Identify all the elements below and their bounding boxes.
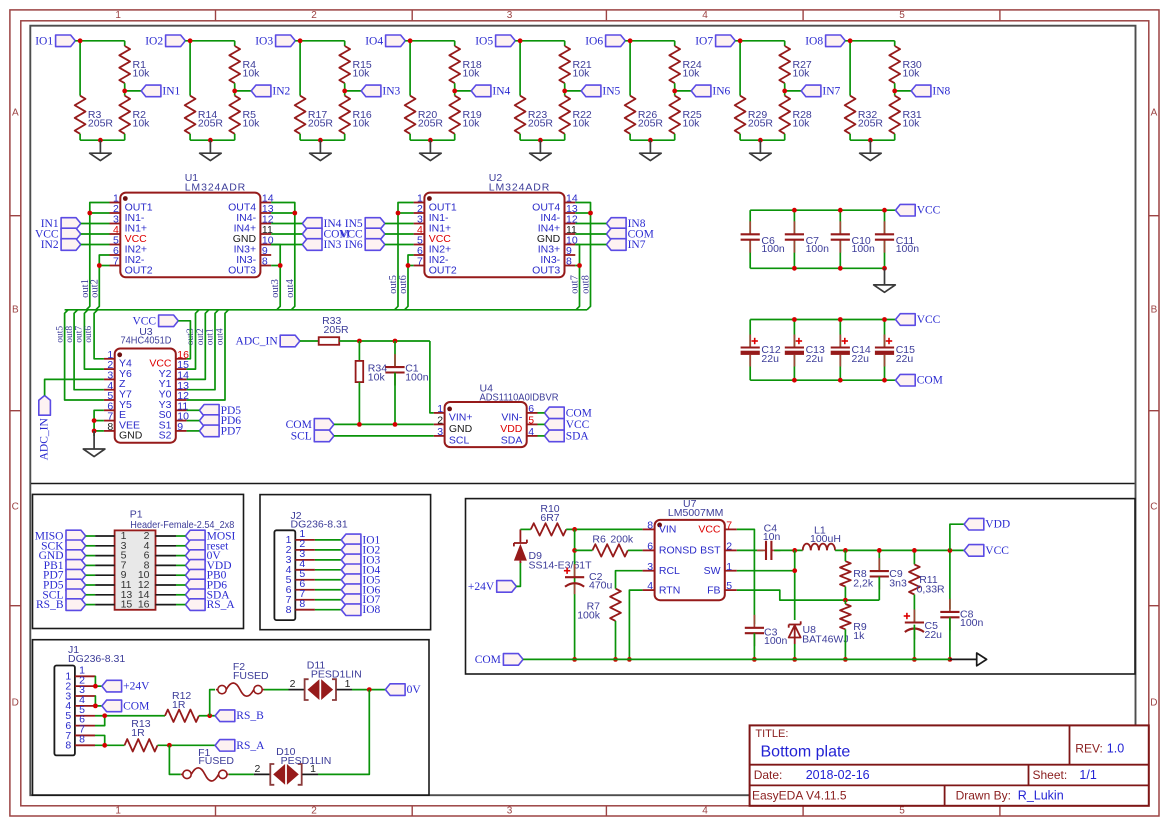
svg-text:1: 1 xyxy=(115,805,121,816)
port RS_A xyxy=(185,599,205,611)
svg-text:1: 1 xyxy=(310,763,316,775)
svg-text:COM: COM xyxy=(286,419,312,431)
P1 pin 15 xyxy=(95,604,115,606)
wire net out3 from bus to U3 pin15 Y2 xyxy=(187,310,199,369)
svg-text:10k: 10k xyxy=(903,118,921,130)
resistor R13 1R xyxy=(125,739,158,751)
svg-text:10k: 10k xyxy=(573,118,591,130)
resistor R12 1R xyxy=(165,710,199,722)
svg-text:4: 4 xyxy=(528,426,534,438)
wire channel 2 bottom xyxy=(189,134,191,140)
port IO2 xyxy=(166,35,186,47)
wire J2 pin 2 to IO2 xyxy=(315,549,341,551)
U1 pin 12 IN4+ xyxy=(260,223,271,225)
port IO4 at J2 xyxy=(341,564,361,576)
svg-text:A: A xyxy=(12,108,19,119)
port reset xyxy=(185,540,205,552)
resistor R33 205R xyxy=(300,340,319,342)
wire U7 BST to C4 xyxy=(737,549,764,551)
svg-text:6: 6 xyxy=(528,403,534,415)
resistor R14 205R xyxy=(185,96,196,134)
section box J1 xyxy=(33,640,430,796)
svg-text:+24V: +24V xyxy=(123,681,150,693)
svg-text:D: D xyxy=(1150,698,1157,709)
svg-text:200k: 200k xyxy=(610,533,634,545)
resistor R2 10k xyxy=(119,96,130,134)
U7 pin 1 SW xyxy=(725,570,737,572)
svg-text:0,33R: 0,33R xyxy=(917,584,945,596)
wire U7 RCL to R7 xyxy=(616,571,643,589)
svg-text:IO2: IO2 xyxy=(145,35,163,47)
svg-text:10k: 10k xyxy=(353,68,371,80)
node IO5 junction xyxy=(518,38,523,43)
wire VCC to U3 pin16 xyxy=(178,321,190,359)
svg-text:R_Lukin: R_Lukin xyxy=(1018,788,1064,802)
port COM power rail xyxy=(503,654,523,666)
U7 pin 5 FB xyxy=(725,589,737,591)
svg-text:B: B xyxy=(12,305,19,316)
ground channel 3 xyxy=(319,140,321,153)
port PD7 at U3 pin9 xyxy=(199,425,219,437)
svg-text:100n: 100n xyxy=(960,617,984,629)
wire net out4 from bus to U3 pin12 Y3 xyxy=(187,310,229,400)
node channel 2 ground junction xyxy=(208,138,213,143)
ground channel 8 xyxy=(869,140,871,153)
resistor R4 10k xyxy=(229,46,240,83)
ruler row ticks and letters xyxy=(10,215,21,217)
port COM bank2 xyxy=(896,374,916,386)
svg-text:COM: COM xyxy=(475,654,501,666)
port IN7 at U2 right xyxy=(606,239,626,251)
svg-text:1: 1 xyxy=(726,561,732,573)
capacitor C2 470u polarized xyxy=(574,564,576,577)
svg-text:+24V: +24V xyxy=(468,581,495,593)
wire xyxy=(271,233,302,235)
svg-text:3: 3 xyxy=(437,426,443,438)
U7 pin 6 RONSD xyxy=(643,549,655,551)
svg-text:VCC: VCC xyxy=(132,315,156,327)
wire J2 pin 1 to IO1 xyxy=(315,539,341,541)
inductor L1 100uH xyxy=(803,544,835,551)
svg-text:IO5: IO5 xyxy=(475,35,493,47)
svg-text:OUT3: OUT3 xyxy=(228,265,256,277)
wire net out4 (pin14-pin13 feedback to bus) xyxy=(271,203,295,310)
svg-text:C: C xyxy=(12,502,19,513)
wire channel 1 bottom xyxy=(79,134,81,140)
resistor R11 0.33R xyxy=(913,550,915,564)
svg-text:VCC: VCC xyxy=(985,545,1009,557)
node IN4 junction xyxy=(452,89,457,94)
svg-text:3: 3 xyxy=(647,561,653,573)
port COM at J1 xyxy=(102,700,122,712)
port IO1 xyxy=(56,35,76,47)
svg-text:FUSED: FUSED xyxy=(198,755,234,767)
fuse F1 FUSED xyxy=(181,773,183,775)
port PB0 xyxy=(185,569,205,581)
svg-text:out1: out1 xyxy=(206,328,216,345)
svg-text:C: C xyxy=(1150,502,1157,513)
wire R12 to RS_B xyxy=(199,715,215,717)
wire xyxy=(81,244,110,246)
wire net out2 from bus to U3 pin14 Y1 xyxy=(187,310,209,380)
op-amp U1 LM324ADR body xyxy=(120,193,260,278)
svg-text:RCL: RCL xyxy=(659,565,680,577)
node IN5 junction xyxy=(562,89,567,94)
port IO4 xyxy=(386,35,406,47)
wire SCL to U4 xyxy=(334,435,434,437)
wire U8 to COM rail xyxy=(794,644,796,659)
port IO8 at J2 xyxy=(341,604,361,616)
port IN8 xyxy=(911,85,931,97)
wire net out8 (pin14-pin13 feedback to bus) xyxy=(575,203,590,310)
svg-text:10n: 10n xyxy=(763,531,781,543)
node R6 junction xyxy=(572,548,577,553)
svg-text:Date:: Date: xyxy=(754,768,783,782)
svg-text:COM: COM xyxy=(123,700,149,712)
svg-text:BAT46WJ: BAT46WJ xyxy=(802,633,848,645)
wire channel 3 bottom xyxy=(299,134,301,140)
wire J2 pin 8 to IO8 xyxy=(315,609,341,611)
svg-text:5: 5 xyxy=(726,580,732,592)
wire net out1 (pin1-pin2 feedback to bus) xyxy=(86,203,109,310)
node RS_A junction xyxy=(167,743,172,748)
svg-text:GND: GND xyxy=(449,423,473,435)
svg-text:9: 9 xyxy=(177,421,183,433)
node RS_B junction xyxy=(207,713,212,718)
resistor R28 10k xyxy=(779,96,790,134)
node IN1 junction xyxy=(122,89,127,94)
port VDD output xyxy=(950,524,964,550)
svg-text:2: 2 xyxy=(311,805,317,816)
ground channel 4 xyxy=(429,140,431,153)
svg-text:SDA: SDA xyxy=(566,430,590,442)
svg-text:ADC_IN: ADC_IN xyxy=(236,336,279,348)
port IN5 xyxy=(581,85,601,97)
svg-text:IN3: IN3 xyxy=(324,239,342,251)
svg-text:VCC: VCC xyxy=(698,524,721,536)
svg-text:205R: 205R xyxy=(858,118,884,130)
U4 pin 3 SCL xyxy=(434,435,445,437)
COM rail output arrow xyxy=(950,658,977,660)
wire net out5 from bus to U3 pin5 Y5 xyxy=(65,310,104,400)
svg-text:IO6: IO6 xyxy=(585,35,603,47)
U1 pin 14 OUT4 xyxy=(260,202,271,204)
resistor R3 205R xyxy=(75,96,86,134)
svg-text:4: 4 xyxy=(647,580,653,592)
multiplexer U3 74HC4051D body xyxy=(115,349,176,443)
port IN4 at U1 right xyxy=(302,218,322,230)
port VCC at U4 right xyxy=(545,419,565,431)
U3 pin 4 Y7 xyxy=(104,389,115,391)
wire VCC rail bank2 xyxy=(750,319,895,321)
resistor R1 10k xyxy=(119,46,130,83)
svg-text:8: 8 xyxy=(65,740,71,752)
port SDA xyxy=(185,589,205,601)
port ADC_IN at R33 xyxy=(280,335,300,347)
port COM at U4 left xyxy=(314,419,334,431)
node out8 xyxy=(588,211,593,216)
svg-text:out3: out3 xyxy=(270,279,281,298)
ground channel 2 xyxy=(209,140,211,153)
U3 pin 3 Z xyxy=(104,378,115,380)
port VCC bank2 xyxy=(896,314,916,326)
svg-text:100n: 100n xyxy=(405,371,429,383)
svg-text:COM: COM xyxy=(917,375,943,387)
TVS diode D11 PESD1LIN xyxy=(305,679,309,700)
svg-text:10k: 10k xyxy=(683,118,701,130)
port IN3 xyxy=(361,85,381,97)
svg-text:OUT2: OUT2 xyxy=(429,265,457,277)
node IN8 junction xyxy=(892,89,897,94)
wire J1 pin1 to pin2 (+24V) xyxy=(94,676,96,686)
node 0V junction xyxy=(367,687,372,692)
wire ADC_IN to U3 pin3 Z xyxy=(45,379,104,395)
U1 pin 9 IN3- xyxy=(260,254,271,256)
svg-text:100n: 100n xyxy=(764,635,788,647)
wire RS_A to fuse F1 xyxy=(169,745,180,774)
svg-text:3: 3 xyxy=(507,10,513,21)
svg-text:BST: BST xyxy=(700,545,721,557)
node channel 1 ground junction xyxy=(98,138,103,143)
svg-text:3n3: 3n3 xyxy=(889,577,907,589)
svg-text:REV:: REV: xyxy=(1075,742,1103,756)
node U8 bottom junction xyxy=(792,657,797,662)
resistor R17 205R xyxy=(295,96,306,134)
port 0V xyxy=(185,550,205,562)
svg-text:IO8: IO8 xyxy=(805,35,823,47)
wire channel 4 bottom xyxy=(409,134,411,140)
node C8 bottom junction xyxy=(948,657,953,662)
U1 pin 8 OUT3 xyxy=(260,265,271,267)
svg-text:ADS1110A0IDBVR: ADS1110A0IDBVR xyxy=(480,392,559,404)
P1 pin 8 xyxy=(156,564,177,566)
svg-text:2,2k: 2,2k xyxy=(853,577,874,589)
U3 pin 14 Y1 xyxy=(176,378,187,380)
wire xyxy=(575,244,606,246)
wire xyxy=(81,233,110,235)
U2 pin 3 IN1+ xyxy=(414,223,425,225)
wire J2 pin 7 to IO7 xyxy=(315,599,341,601)
wire J1 pin5/pin6 RS_B net xyxy=(95,715,165,717)
wire R33 to U4 VIN+ xyxy=(339,340,430,342)
U2 pin 1 OUT1 xyxy=(414,202,425,204)
section box power supply xyxy=(466,499,1136,674)
svg-text:VIN+: VIN+ xyxy=(449,412,473,424)
port IO5 at J2 xyxy=(341,574,361,586)
svg-text:1: 1 xyxy=(437,403,443,415)
svg-text:16: 16 xyxy=(138,599,150,611)
wire +24V to D9 xyxy=(516,562,520,586)
resistor R20 205R xyxy=(405,96,416,134)
wire J2 pin 6 to IO6 xyxy=(315,589,341,591)
svg-text:8: 8 xyxy=(107,421,113,433)
svg-text:VCC: VCC xyxy=(917,314,941,326)
svg-text:5: 5 xyxy=(528,415,534,427)
U3 pin 8 GND xyxy=(104,430,115,432)
svg-text:2018-02-16: 2018-02-16 xyxy=(806,768,870,782)
U4 pin 2 GND xyxy=(434,423,445,425)
port PB1 xyxy=(66,560,86,572)
wire IN4 node xyxy=(454,83,456,96)
port IN4 xyxy=(471,85,491,97)
P1 pin 11 xyxy=(95,584,115,586)
svg-text:22u: 22u xyxy=(852,353,870,365)
wire VCC rail bank1 xyxy=(750,209,895,211)
port MOSI xyxy=(185,530,205,542)
node out2 xyxy=(97,263,102,268)
port VCC output xyxy=(964,545,984,557)
svg-text:100n: 100n xyxy=(806,243,830,255)
svg-text:10k: 10k xyxy=(463,68,481,80)
svg-text:205R: 205R xyxy=(198,118,224,130)
U4 pin 1 VIN+ xyxy=(434,412,445,414)
wire net out8 from bus to U3 pin4 Y7 xyxy=(74,310,104,390)
resistor R18 10k xyxy=(449,46,460,83)
wire xyxy=(385,223,414,225)
resistor R22 10k xyxy=(559,96,570,134)
node out1 xyxy=(87,211,92,216)
port IO5 xyxy=(496,35,516,47)
svg-text:10k: 10k xyxy=(463,118,481,130)
node C5 bottom junction xyxy=(912,657,917,662)
port IO7 xyxy=(716,35,736,47)
ground U3 xyxy=(93,431,95,449)
connector J2 DG236-8.31 body xyxy=(274,530,295,620)
U1 pin 1 OUT1 xyxy=(110,202,121,204)
port IN7 xyxy=(801,85,821,97)
P1 pin 7 xyxy=(95,564,115,566)
port ADC_IN left of U3 (rotated) xyxy=(39,396,51,416)
port SCK xyxy=(66,540,86,552)
port COM at U2 right xyxy=(606,228,626,240)
svg-text:1.0: 1.0 xyxy=(1107,742,1124,756)
svg-text:FB: FB xyxy=(707,584,720,596)
svg-text:1: 1 xyxy=(345,678,351,690)
svg-text:IN2: IN2 xyxy=(272,85,290,97)
svg-text:B: B xyxy=(1151,305,1158,316)
resistor R24 10k xyxy=(669,46,680,83)
svg-text:100n: 100n xyxy=(896,243,920,255)
ground channel 1 xyxy=(99,140,101,153)
svg-text:RS_B: RS_B xyxy=(236,710,264,722)
svg-text:FUSED: FUSED xyxy=(233,670,269,682)
svg-text:VCC: VCC xyxy=(566,419,590,431)
port VCC at U2 left xyxy=(365,228,385,240)
wire F2 to D11 xyxy=(264,689,289,691)
svg-text:PD7: PD7 xyxy=(221,425,242,437)
svg-text:ADC_IN: ADC_IN xyxy=(39,418,51,461)
svg-text:10k: 10k xyxy=(243,68,261,80)
svg-text:VCC: VCC xyxy=(917,205,941,217)
svg-text:100k: 100k xyxy=(577,610,601,622)
svg-text:RS_A: RS_A xyxy=(236,740,265,752)
resistor R9 1k xyxy=(840,604,851,629)
wire xyxy=(575,223,606,225)
U1 pin 13 IN4- xyxy=(260,212,271,214)
svg-text:VIN-: VIN- xyxy=(501,412,523,424)
svg-text:out4: out4 xyxy=(285,278,296,297)
wire J2 pin 3 to IO3 xyxy=(315,559,341,561)
U2 pin 6 IN2- xyxy=(414,254,425,256)
wire IO5 top xyxy=(515,40,564,42)
wire xyxy=(271,223,302,225)
svg-text:74HC4051D: 74HC4051D xyxy=(121,335,172,347)
resistor R15 10k xyxy=(339,46,350,83)
U2 pin 11 GND xyxy=(565,233,576,235)
node C8 top junction xyxy=(948,548,953,553)
resistor R27 10k xyxy=(779,46,790,83)
svg-text:1k: 1k xyxy=(853,630,865,642)
wire U7 SW to catch diode xyxy=(737,570,795,572)
svg-text:LM324ADR: LM324ADR xyxy=(489,182,550,194)
capacitor C4 10n xyxy=(757,549,766,551)
node IO3 junction xyxy=(298,38,303,43)
resistor R16 10k xyxy=(339,96,350,134)
svg-text:IN7: IN7 xyxy=(628,239,646,251)
U1 pin 2 IN1- xyxy=(110,212,121,214)
capacitor C14 22u polarized xyxy=(839,320,841,348)
header P1 Header-Female-2.54_2x8 body xyxy=(115,530,156,609)
wire channel 6 bottom xyxy=(629,134,631,140)
svg-text:100n: 100n xyxy=(761,243,785,255)
section box J2 xyxy=(260,495,431,630)
node IN6 junction xyxy=(672,89,677,94)
wire IO3 top xyxy=(295,40,344,42)
resistor R23 205R xyxy=(515,96,526,134)
resistor R6 200k xyxy=(592,544,627,556)
port COM at U4 right xyxy=(545,407,565,419)
wire IO7 top xyxy=(735,40,784,42)
wire IN8 node xyxy=(894,83,896,96)
node out3 xyxy=(278,263,283,268)
svg-text:IN2: IN2 xyxy=(41,239,59,251)
wire J2 pin 5 to IO5 xyxy=(315,579,341,581)
port RS_B xyxy=(66,599,86,611)
svg-text:2: 2 xyxy=(726,541,732,553)
U3 pin 2 Y6 xyxy=(104,368,115,370)
U3 pin 5 Y5 xyxy=(104,399,115,401)
U2 pin 14 OUT4 xyxy=(565,202,576,204)
port IO7 at J2 xyxy=(341,594,361,606)
svg-text:PESD1LIN: PESD1LIN xyxy=(281,755,332,767)
U1 pin 11 GND xyxy=(260,233,271,235)
U3 pin 10 S1 xyxy=(176,420,187,422)
capacitor C5 22u polarized xyxy=(913,595,915,623)
svg-text:IN6: IN6 xyxy=(345,239,363,251)
TVS diode D10 PESD1LIN xyxy=(270,764,274,785)
svg-text:10k: 10k xyxy=(368,371,386,383)
wire net out1 from bus to U3 pin13 Y0 xyxy=(187,310,219,390)
svg-text:out6: out6 xyxy=(398,275,409,294)
capacitor C8 100n xyxy=(949,550,951,609)
wire IN6 node xyxy=(674,83,676,96)
wire xyxy=(81,223,110,225)
ground channel 6 xyxy=(649,140,651,153)
svg-text:100n: 100n xyxy=(852,243,876,255)
wire IO8 top xyxy=(845,40,894,42)
svg-text:7: 7 xyxy=(726,520,732,532)
port VDD xyxy=(185,560,205,572)
svg-text:1R: 1R xyxy=(131,727,145,739)
wire net out6 (pin6-pin7 feedback to bus) xyxy=(405,255,414,310)
node IN3 junction xyxy=(342,89,347,94)
svg-text:1: 1 xyxy=(115,10,121,21)
port RS_A xyxy=(215,740,235,752)
port PD6 at U3 pin10 xyxy=(199,415,219,427)
wire VIN node down to C2 and COM xyxy=(574,529,576,659)
resistor R19 10k xyxy=(449,96,460,134)
port +24V power input xyxy=(497,581,517,593)
